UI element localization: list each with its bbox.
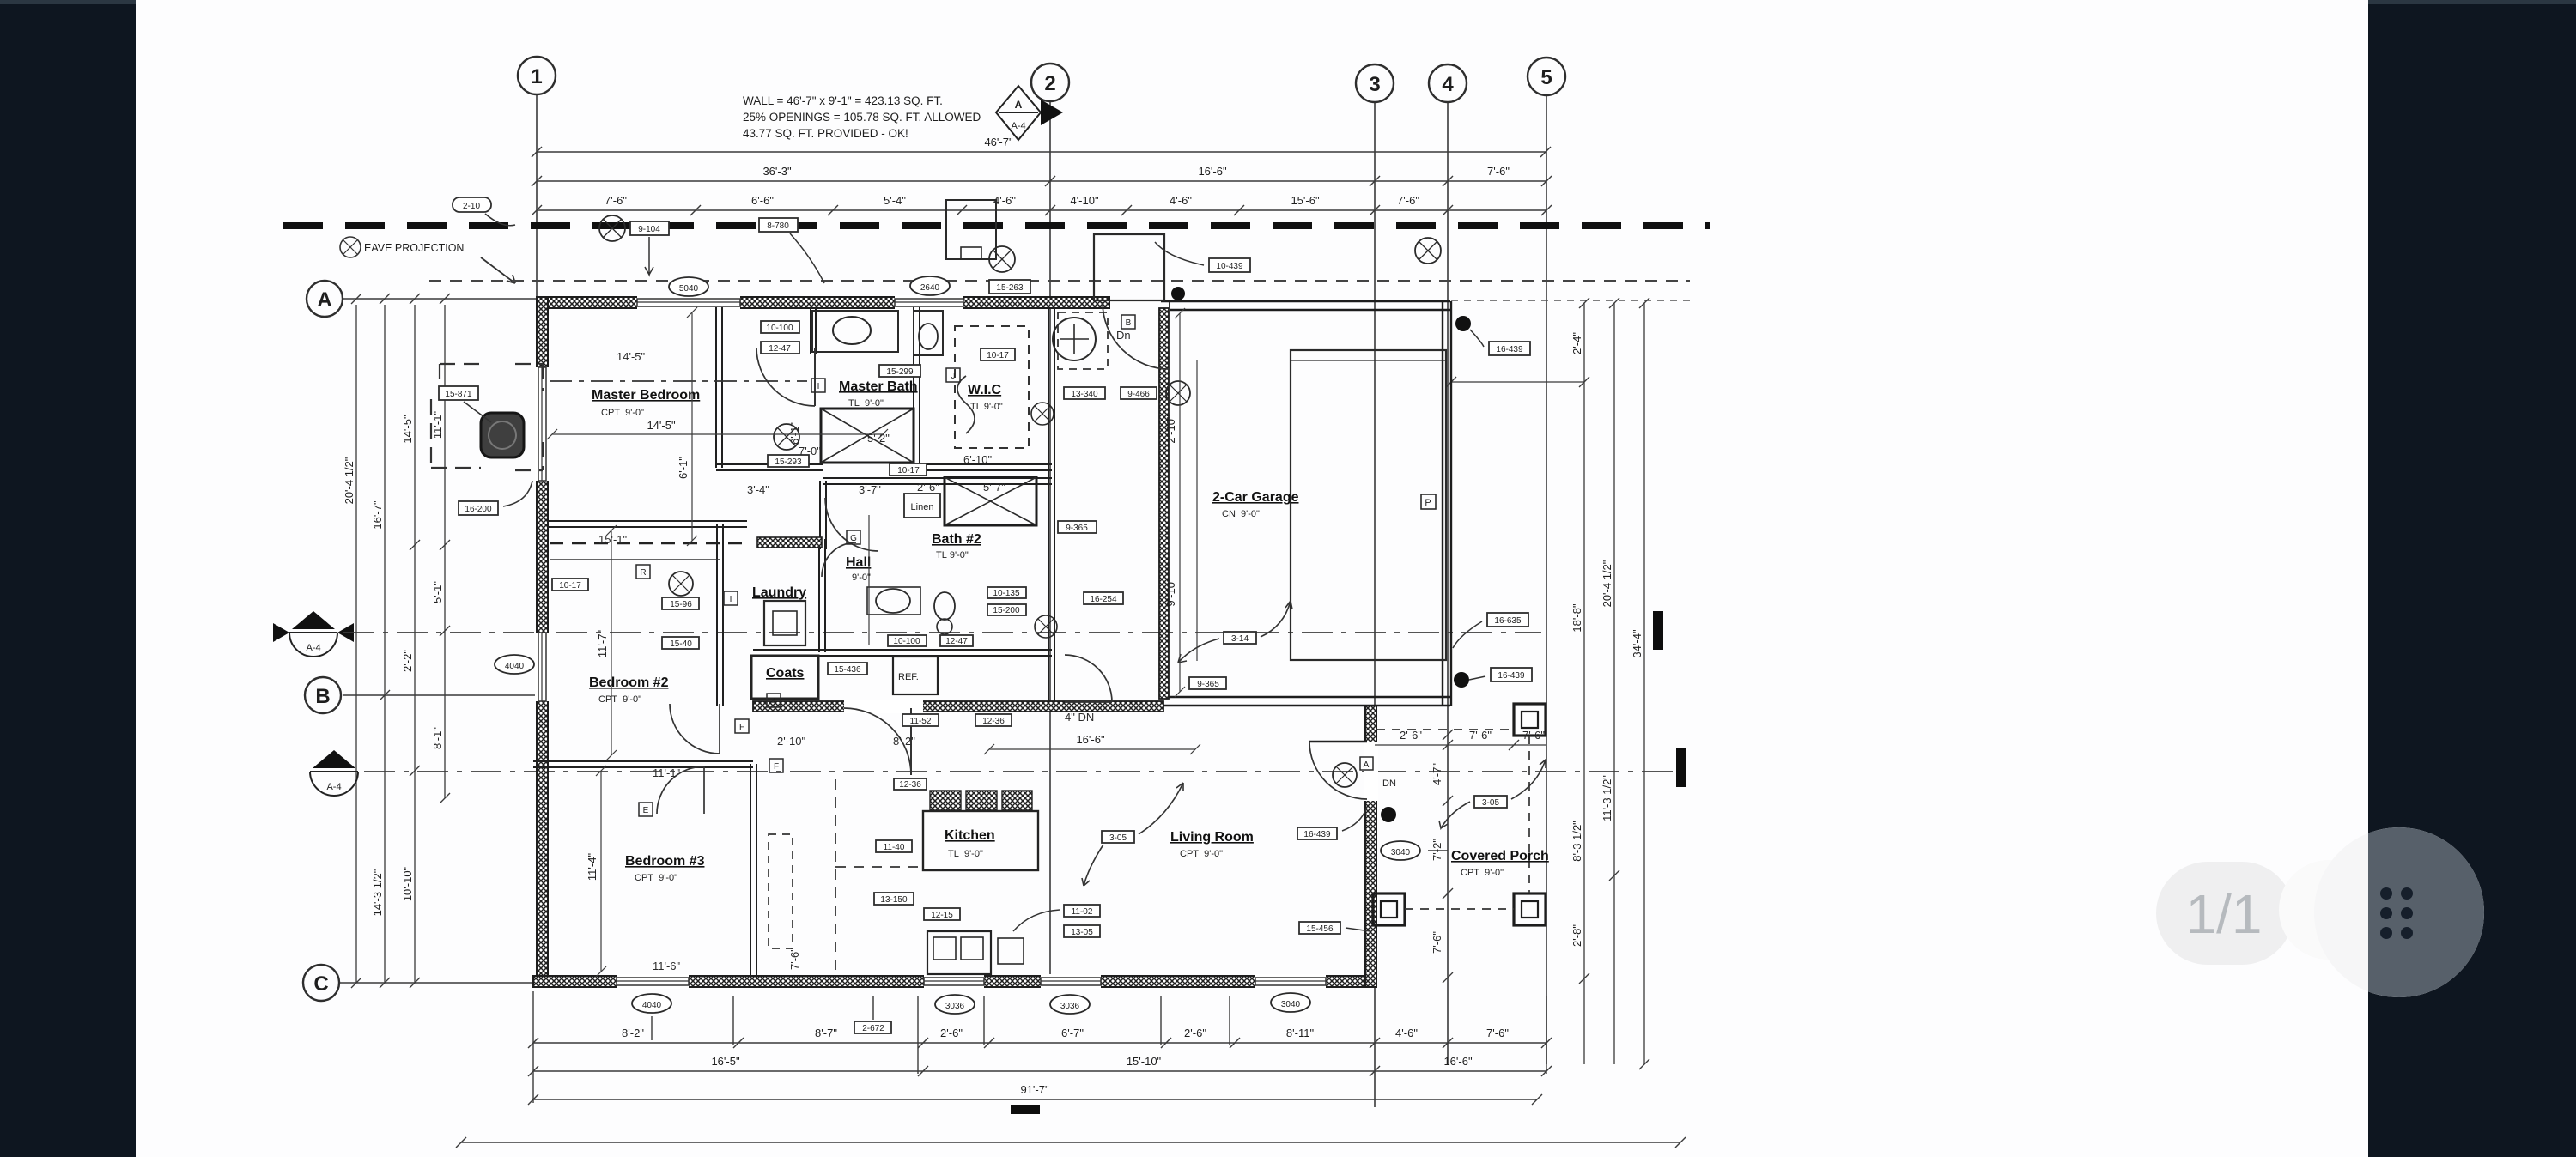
svg-text:Master Bath: Master Bath (839, 379, 918, 394)
eave dashed line (429, 280, 1690, 282)
bath2 labels (987, 587, 1026, 598)
kitchen labels (876, 840, 912, 852)
svg-text:I: I (730, 595, 732, 604)
svg-text:5'-1": 5'-1" (431, 581, 444, 603)
master tub with X (821, 409, 914, 463)
svg-text:16-439: 16-439 (1303, 830, 1331, 839)
svg-text:9'-0": 9'-0" (852, 572, 871, 583)
bedroom3 door (657, 766, 704, 814)
svg-text:2'-8": 2'-8" (1571, 924, 1583, 947)
svg-text:7'-6": 7'-6" (605, 194, 627, 207)
16-635 (1487, 613, 1528, 627)
svg-text:Bedroom #3: Bedroom #3 (625, 854, 705, 869)
svg-text:5'-4": 5'-4" (884, 194, 906, 207)
svg-text:A: A (317, 288, 331, 312)
svg-text:A-4: A-4 (1011, 121, 1025, 131)
grid bubble C (303, 965, 339, 1001)
svg-text:TL 9'-0": TL 9'-0" (970, 402, 1003, 412)
svg-text:3'-4": 3'-4" (747, 483, 769, 496)
svg-text:2'-10": 2'-10" (1164, 415, 1177, 444)
svg-text:9-365: 9-365 (1197, 680, 1219, 689)
svg-text:8-780: 8-780 (767, 221, 789, 231)
svg-text:15'-6": 15'-6" (1291, 194, 1320, 207)
svg-text:Master Bedroom: Master Bedroom (592, 388, 700, 403)
left exterior wall (hatched) (537, 297, 548, 987)
bedroom2 east wall (716, 524, 718, 706)
svg-text:Coats: Coats (766, 666, 805, 681)
16-439 right lower (1454, 672, 1469, 688)
svg-text:10-17: 10-17 (987, 351, 1009, 360)
svg-text:1/1: 1/1 (2186, 883, 2263, 945)
svg-text:11'-1": 11'-1" (431, 411, 444, 439)
16-200 label (459, 501, 498, 515)
kitchen sink unit (927, 931, 991, 974)
svg-text:G: G (850, 534, 857, 543)
svg-text:7'-0": 7'-0" (799, 445, 821, 457)
washer box (764, 601, 805, 645)
svg-text:8'-3 1/2": 8'-3 1/2" (1571, 821, 1583, 862)
viewer dark left bar (0, 0, 136, 1157)
svg-text:REF.: REF. (898, 672, 919, 682)
svg-text:A-4: A-4 (306, 643, 320, 653)
svg-text:WALL = 46'-7" x 9'-1" = 423.13: WALL = 46'-7" x 9'-1" = 423.13 SQ. FT. (743, 94, 943, 107)
linen box (904, 494, 940, 518)
svg-text:Dn: Dn (1116, 329, 1131, 342)
wall calc note text (743, 94, 981, 140)
porch leader 3-05 (1474, 796, 1507, 808)
svg-text:15-436: 15-436 (834, 665, 861, 675)
entry door arc (1103, 302, 1170, 369)
svg-text:2-672: 2-672 (862, 1024, 884, 1033)
window gap top wall (5040) (637, 295, 740, 310)
black tick bottom (1011, 1105, 1040, 1114)
svg-text:8'-11": 8'-11" (1286, 1027, 1315, 1039)
10-439 (1209, 258, 1250, 272)
svg-text:16'-6": 16'-6" (1198, 165, 1227, 178)
svg-text:7'-6": 7'-6" (788, 948, 801, 970)
svg-text:16-439: 16-439 (1496, 345, 1523, 354)
svg-text:7'-6": 7'-6" (1486, 1027, 1509, 1039)
svg-text:10'-10": 10'-10" (401, 866, 414, 901)
black dot entry (1171, 287, 1185, 300)
svg-text:14'-5": 14'-5" (617, 350, 646, 363)
svg-text:11'-3 1/2": 11'-3 1/2" (1601, 775, 1613, 821)
svg-text:5: 5 (1540, 66, 1552, 89)
svg-text:2'-6": 2'-6" (1400, 729, 1422, 742)
porch dashed boundary (1376, 729, 1514, 730)
svg-text:43.77 SQ. FT. PROVIDED - OK!: 43.77 SQ. FT. PROVIDED - OK! (743, 127, 908, 140)
svg-text:9'-10": 9'-10" (1164, 578, 1177, 607)
section marker A/A-4 diamond (996, 86, 1063, 140)
garage/house shared wall (1159, 308, 1169, 699)
master bath vanity (812, 311, 898, 352)
grid line 5 (1546, 95, 1547, 1064)
dim row segments (537, 209, 1546, 211)
grid bubble 4 (1429, 64, 1467, 102)
svg-text:10-135: 10-135 (993, 589, 1020, 598)
living room leaders (1102, 831, 1134, 843)
pantry dashed (769, 834, 793, 948)
svg-text:CPT 9'-0": CPT 9'-0" (635, 873, 677, 883)
heavy dashed property line (283, 222, 1710, 229)
grid line A horizontal (343, 298, 541, 300)
master bath labels (761, 321, 799, 333)
svg-text:E: E (643, 806, 649, 815)
svg-text:Linen: Linen (911, 502, 934, 512)
grid bubble 5 (1528, 58, 1565, 95)
svg-text:CPT 9'-0": CPT 9'-0" (601, 408, 644, 418)
svg-text:7'-6": 7'-6" (1487, 165, 1510, 178)
svg-text:11'-7": 11'-7" (596, 630, 609, 658)
garage bottom wall (1161, 697, 1450, 706)
svg-text:4" DN: 4" DN (1065, 711, 1094, 724)
svg-text:I: I (817, 382, 820, 391)
porch post SW (1373, 893, 1405, 925)
svg-text:10-100: 10-100 (766, 324, 793, 333)
svg-text:12-36: 12-36 (982, 717, 1005, 726)
svg-text:10-439: 10-439 (1216, 262, 1243, 271)
svg-text:7'-6": 7'-6" (1397, 194, 1419, 207)
svg-text:Covered Porch: Covered Porch (1451, 849, 1549, 863)
entry labels (1064, 387, 1105, 399)
svg-text:13-150: 13-150 (880, 895, 908, 905)
svg-text:5040: 5040 (679, 284, 699, 294)
garage top wall (double line) (1161, 301, 1450, 310)
svg-text:34'-4": 34'-4" (1631, 629, 1643, 658)
svg-text:EAVE PROJECTION: EAVE PROJECTION (364, 242, 464, 254)
grid bubble 1 (518, 57, 556, 94)
svg-text:15'-1": 15'-1" (598, 533, 628, 546)
2-10 setback label (453, 197, 491, 212)
svg-text:R: R (640, 568, 646, 578)
bedroom2 interior vertical (611, 530, 612, 755)
grid line 2 (1049, 101, 1051, 976)
svg-text:TL 9'-0": TL 9'-0" (948, 849, 983, 859)
svg-text:CPT 9'-0": CPT 9'-0" (1461, 868, 1504, 878)
svg-text:8'-1": 8'-1" (431, 727, 444, 749)
svg-text:2'-10": 2'-10" (777, 735, 806, 748)
master bedroom dims (552, 433, 883, 435)
svg-text:14'-5": 14'-5" (401, 415, 414, 444)
dashed pad (431, 364, 543, 470)
svg-text:10-17: 10-17 (559, 581, 581, 591)
svg-text:3036: 3036 (945, 1002, 965, 1011)
svg-text:F: F (774, 762, 779, 772)
svg-text:15-299: 15-299 (886, 367, 914, 377)
bath tub surround (810, 307, 811, 354)
bottom window ovals (632, 994, 671, 1013)
interior dimension lines (547, 307, 1200, 977)
grid bubble A (307, 281, 343, 317)
kitchen island (923, 811, 1038, 870)
svg-text:14'-5": 14'-5" (647, 419, 676, 432)
section marker C/A-4 (310, 750, 358, 796)
master bath toilet (914, 311, 943, 355)
svg-text:3-05: 3-05 (1482, 798, 1499, 808)
svg-text:8'-7": 8'-7" (815, 1027, 837, 1039)
svg-text:9-104: 9-104 (638, 225, 660, 234)
svg-text:A-4: A-4 (326, 782, 341, 792)
hall south hatched wall / living north (753, 701, 1163, 712)
REF box (893, 657, 938, 694)
3-14 with leaders (1224, 632, 1256, 644)
svg-text:7'-6": 7'-6" (1469, 729, 1492, 742)
grid line 4 (1447, 102, 1449, 1064)
oval 2640 (910, 276, 950, 295)
window gap left wall 2 (4040) (535, 633, 550, 701)
svg-text:16-439: 16-439 (1498, 671, 1525, 681)
svg-text:11'-6": 11'-6" (653, 960, 681, 972)
grid bubble 2 (1031, 64, 1069, 101)
svg-text:15-96: 15-96 (670, 600, 692, 609)
svg-text:10-100: 10-100 (893, 637, 920, 646)
sym circle top (989, 246, 1015, 272)
svg-text:4'-7": 4'-7" (1431, 763, 1443, 785)
hall area labels (552, 578, 588, 591)
bottom exterior wall (hatched) (533, 976, 1376, 987)
grid bubble B (305, 677, 341, 713)
svg-text:15'-10": 15'-10" (1127, 1055, 1162, 1068)
master bath door (756, 348, 815, 406)
svg-text:18'-8": 18'-8" (1571, 603, 1583, 633)
svg-text:4040: 4040 (642, 1001, 662, 1010)
porch double door leaf + arc (1309, 741, 1367, 743)
svg-text:16'-6": 16'-6" (1076, 733, 1105, 746)
svg-text:91'-7": 91'-7" (1020, 1083, 1049, 1096)
right living-room exterior wall (hatched) (1365, 706, 1376, 987)
side stoop pad (946, 200, 996, 259)
bath2 walls (823, 477, 1052, 479)
porch vertical dim ticks on grid4 (1443, 730, 1453, 740)
garage right wall (1443, 301, 1451, 706)
living room dim (989, 748, 1195, 750)
master bedroom dash-dot ceiling line (550, 380, 807, 382)
bedroom2 north wall (547, 520, 747, 522)
svg-text:F: F (739, 723, 744, 732)
svg-text:8'-2": 8'-2" (622, 1027, 644, 1039)
svg-text:6'-6": 6'-6" (751, 194, 774, 207)
porch post NE (1514, 704, 1546, 736)
svg-text:12-47: 12-47 (945, 637, 968, 646)
svg-text:16'-6": 16'-6" (1443, 1055, 1473, 1068)
svg-text:9-365: 9-365 (1066, 524, 1088, 533)
sym circle 9-104 (599, 215, 625, 241)
svg-text:Laundry: Laundry (752, 585, 806, 600)
wic south wall (914, 463, 1052, 465)
svg-text:C: C (313, 972, 328, 996)
wall at grid2 vertical (1048, 307, 1049, 702)
svg-text:20'-4 1/2": 20'-4 1/2" (343, 457, 355, 504)
grid line B horizontal (343, 694, 550, 696)
section marker B/A-4 (273, 611, 354, 657)
svg-text:CPT 9'-0": CPT 9'-0" (598, 694, 641, 705)
svg-text:20'-4 1/2": 20'-4 1/2" (1601, 560, 1613, 607)
svg-text:7'-2": 7'-2" (1431, 839, 1443, 861)
svg-text:13-05: 13-05 (1071, 928, 1093, 937)
bedroom3 interior vertical (600, 771, 602, 972)
svg-text:16-254: 16-254 (1090, 595, 1117, 604)
svg-text:3040: 3040 (1281, 1000, 1301, 1009)
svg-text:B: B (315, 685, 330, 708)
svg-text:25% OPENINGS = 105.78 SQ. FT.: 25% OPENINGS = 105.78 SQ. FT. ALLOWED (743, 111, 981, 124)
garage labels (1058, 521, 1097, 533)
svg-text:4: 4 (771, 697, 776, 706)
dw box (998, 938, 1024, 964)
master bedroom / bath wall (715, 307, 717, 468)
svg-text:2640: 2640 (920, 283, 940, 293)
svg-text:16'-7": 16'-7" (371, 500, 384, 530)
svg-text:Bath #2: Bath #2 (932, 532, 981, 547)
svg-text:16-635: 16-635 (1494, 616, 1522, 626)
svg-text:CPT 9'-0": CPT 9'-0" (1180, 849, 1223, 859)
door gap right wall (to porch) (1364, 742, 1378, 801)
svg-text:2'-6": 2'-6" (940, 1027, 963, 1039)
svg-text:1: 1 (531, 65, 542, 88)
svg-text:4040: 4040 (505, 662, 525, 671)
svg-text:9-466: 9-466 (1127, 390, 1150, 399)
bath2 toilet (934, 592, 955, 620)
laundry door (822, 542, 856, 577)
water heater circle (1053, 318, 1096, 360)
svg-text:W.I.C: W.I.C (968, 383, 1002, 397)
sym circle bath (774, 424, 799, 450)
svg-text:2'-6": 2'-6" (1184, 1027, 1206, 1039)
svg-text:11'-1": 11'-1" (653, 766, 681, 779)
svg-text:2'-2": 2'-2" (401, 650, 414, 672)
svg-text:15-871: 15-871 (445, 390, 472, 399)
svg-text:11-02: 11-02 (1072, 907, 1093, 917)
svg-text:3036: 3036 (1060, 1002, 1080, 1011)
hall/bath2 vertical (868, 515, 870, 645)
door tag squares (811, 379, 825, 392)
svg-text:12-47: 12-47 (769, 344, 791, 354)
svg-text:4'-6": 4'-6" (1170, 194, 1192, 207)
wic shelves dashed (955, 326, 1029, 448)
svg-text:3'-7": 3'-7" (859, 483, 881, 496)
svg-text:B: B (1126, 318, 1132, 328)
svg-text:2-10: 2-10 (463, 202, 480, 211)
svg-text:2'-4": 2'-4" (1571, 332, 1583, 354)
svg-text:15-456: 15-456 (1306, 924, 1334, 934)
svg-text:14'-3 1/2": 14'-3 1/2" (371, 869, 384, 916)
15-871 label (439, 386, 478, 400)
bottom wall window gaps (617, 974, 689, 989)
dim row 36'-3 / 16'-6 / 7'-6 (537, 180, 1546, 182)
bath2 tub with X (945, 477, 1036, 525)
svg-text:6'-7": 6'-7" (1061, 1027, 1084, 1039)
entry stoop (1094, 234, 1164, 300)
svg-text:2-Car Garage: 2-Car Garage (1212, 490, 1299, 505)
oval 4040 left wall (495, 655, 534, 674)
bedroom3 east wall (750, 764, 751, 978)
window gap top wall (2640) (895, 295, 963, 310)
wic door (957, 376, 975, 433)
svg-text:8'-2": 8'-2" (893, 735, 915, 748)
svg-text:2: 2 (1044, 72, 1055, 95)
oval 5040 (669, 277, 708, 296)
svg-text:Living Room: Living Room (1170, 830, 1254, 845)
svg-text:16-200: 16-200 (465, 505, 492, 514)
sym circle right (1415, 238, 1441, 264)
svg-text:4'-6": 4'-6" (1395, 1027, 1418, 1039)
bath2 sink oval (876, 589, 910, 613)
window gap left wall 1 (5040) (535, 367, 550, 481)
laundry east wall (818, 539, 820, 652)
P tag (1421, 494, 1436, 509)
garage door recess rect (1291, 350, 1446, 660)
svg-text:11'-4": 11'-4" (586, 853, 598, 881)
bedroom2 door (670, 704, 720, 754)
grid line C horizontal (340, 982, 539, 984)
svg-text:16'-5": 16'-5" (711, 1055, 740, 1068)
svg-text:2'-6": 2'-6" (917, 481, 939, 494)
svg-text:11-40: 11-40 (884, 843, 905, 852)
svg-text:15-40: 15-40 (670, 639, 692, 649)
kitchen counter dashed (835, 779, 919, 970)
bedroom3 north wall (533, 760, 753, 762)
svg-text:4: 4 (1442, 73, 1454, 96)
svg-text:15-200: 15-200 (993, 606, 1020, 615)
faded white pill behind 1/1 (2156, 862, 2293, 965)
viewer dark right bar (2368, 0, 2576, 1157)
svg-text:6'-10": 6'-10" (963, 453, 993, 466)
svg-text:7'-6": 7'-6" (1431, 931, 1443, 954)
svg-text:13-340: 13-340 (1071, 390, 1098, 399)
svg-text:15-263: 15-263 (996, 283, 1024, 293)
svg-text:5'-7": 5'-7" (983, 481, 1005, 494)
svg-text:DN: DN (1382, 778, 1396, 789)
2-672 bottom (854, 1021, 891, 1033)
svg-text:J: J (951, 372, 956, 381)
svg-text:12-36: 12-36 (899, 780, 921, 790)
svg-text:3-14: 3-14 (1231, 634, 1249, 644)
svg-text:3: 3 (1369, 73, 1380, 96)
svg-text:A: A (1015, 99, 1023, 111)
svg-text:Bedroom #2: Bedroom #2 (589, 675, 669, 690)
hall/bath2 door (825, 498, 878, 551)
grid line 3 (1374, 102, 1376, 1107)
garage interior verticals (1179, 313, 1181, 692)
master bath south wall (716, 463, 823, 465)
svg-text:11-52: 11-52 (910, 717, 932, 726)
bath / wic wall (913, 307, 914, 468)
16-439 top right (1455, 316, 1471, 331)
top exterior wall (hatched) (537, 297, 1109, 308)
svg-text:A: A (1364, 760, 1370, 770)
svg-text:36'-3": 36'-3" (762, 165, 792, 178)
AC unit dark square (481, 413, 524, 457)
hall to garage door (1065, 655, 1112, 702)
hall closet dashed (1058, 312, 1108, 369)
svg-text:TL 9'-0": TL 9'-0" (848, 398, 884, 409)
grid line 1 (536, 94, 538, 302)
dots grid button (2314, 827, 2484, 997)
svg-text:6'-1": 6'-1" (788, 422, 801, 445)
grid bubble 3 (1356, 64, 1394, 102)
svg-text:TL 9'-0": TL 9'-0" (936, 550, 969, 560)
svg-text:46'-7": 46'-7" (984, 136, 1013, 148)
svg-text:10-17: 10-17 (897, 466, 920, 476)
svg-text:4'-10": 4'-10" (1070, 194, 1099, 207)
svg-text:3-05: 3-05 (1109, 833, 1127, 843)
svg-text:3040: 3040 (1391, 848, 1411, 857)
porch post SE (1514, 893, 1546, 925)
svg-text:7'-6": 7'-6" (1522, 729, 1545, 742)
svg-text:Hall: Hall (846, 555, 871, 570)
laundry hatched wall (757, 537, 822, 548)
svg-text:P: P (1425, 498, 1431, 508)
porch small dims (1375, 744, 1546, 746)
